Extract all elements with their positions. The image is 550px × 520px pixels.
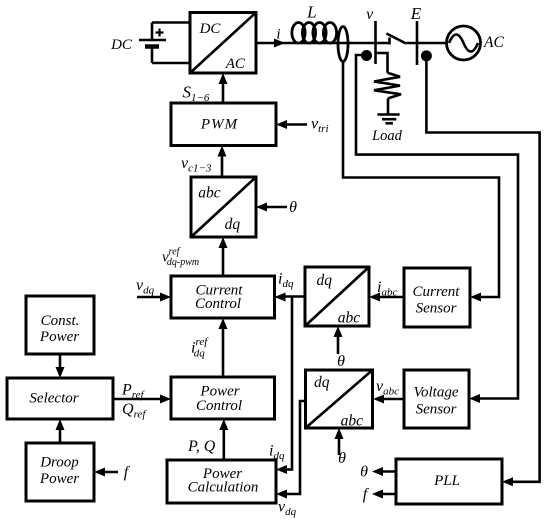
- svg-text:Power: Power: [39, 329, 79, 345]
- svg-text:L: L: [306, 3, 316, 22]
- svg-text:DC: DC: [110, 37, 133, 53]
- svg-text:Control: Control: [196, 398, 242, 414]
- svg-text:Current: Current: [413, 284, 461, 300]
- svg-text:idq: idq: [269, 443, 285, 463]
- svg-text:Power: Power: [39, 471, 79, 487]
- svg-text:i: i: [276, 27, 280, 43]
- svg-text:Const.: Const.: [41, 313, 80, 329]
- svg-text:P, Q: P, Q: [187, 438, 216, 455]
- svg-text:Sensor: Sensor: [416, 402, 457, 418]
- svg-text:E: E: [410, 4, 422, 23]
- svg-text:dq: dq: [314, 374, 330, 391]
- svg-text:Calculation: Calculation: [188, 480, 259, 496]
- svg-text:Droop: Droop: [39, 455, 79, 471]
- svg-text:AC: AC: [225, 56, 246, 72]
- svg-text:Pref: Pref: [121, 382, 146, 402]
- svg-text:θ: θ: [337, 353, 345, 370]
- svg-text:abc: abc: [341, 413, 364, 430]
- svg-text:idq: idq: [278, 271, 294, 291]
- svg-text:abc: abc: [338, 310, 361, 327]
- svg-text:PLL: PLL: [433, 473, 460, 489]
- svg-text:vdq: vdq: [136, 277, 155, 297]
- svg-text:v: v: [366, 6, 374, 23]
- svg-text:Qref: Qref: [122, 401, 147, 421]
- svg-text:f: f: [363, 486, 370, 503]
- svg-text:Voltage: Voltage: [414, 385, 459, 401]
- svg-text:θ: θ: [289, 199, 297, 216]
- svg-text:vabc: vabc: [376, 378, 399, 398]
- svg-text:S1−6: S1−6: [183, 83, 210, 105]
- svg-text:vtri: vtri: [311, 116, 329, 136]
- svg-text:θ: θ: [360, 464, 368, 481]
- svg-text:Control: Control: [195, 296, 241, 312]
- svg-text:Sensor: Sensor: [416, 300, 457, 316]
- svg-text:vrefdq-pwm: vrefdq-pwm: [162, 247, 199, 269]
- svg-text:Selector: Selector: [29, 391, 78, 407]
- svg-text:θ: θ: [338, 450, 346, 467]
- svg-text:dq: dq: [317, 272, 333, 289]
- svg-text:f: f: [124, 464, 131, 481]
- svg-text:iabc: iabc: [377, 279, 397, 299]
- svg-text:DC: DC: [199, 21, 222, 37]
- svg-text:Load: Load: [371, 128, 403, 144]
- svg-text:vc1−3: vc1−3: [181, 155, 212, 175]
- svg-text:abc: abc: [198, 185, 221, 202]
- svg-text:PWM: PWM: [200, 117, 239, 133]
- svg-text:vdq: vdq: [278, 499, 297, 519]
- svg-text:irefdq: irefdq: [191, 336, 209, 360]
- svg-text:dq: dq: [225, 216, 241, 233]
- svg-text:AC: AC: [483, 34, 504, 51]
